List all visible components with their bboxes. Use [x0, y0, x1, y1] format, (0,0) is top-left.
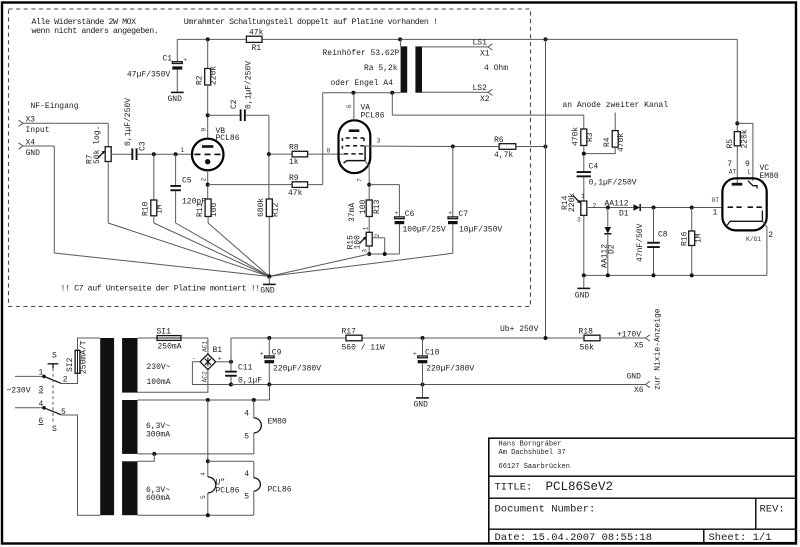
- resistor R2 220k: [196, 39, 219, 138]
- node C3/R10 junction: [152, 152, 156, 156]
- node C8 tap: [652, 206, 656, 210]
- ground at star: [260, 276, 275, 295]
- node R16 tap: [690, 206, 694, 210]
- capacitor C10 220uF/380V: [413, 338, 474, 385]
- magic eye VC EM80: [712, 160, 779, 275]
- transformer TR2 secondary bars: [122, 338, 137, 515]
- svg-text:Alle Widerstände 2W MOX: Alle Widerstände 2W MOX: [32, 17, 137, 27]
- svg-text:Date: 15.04.2007 08:55:18: Date: 15.04.2007 08:55:18: [495, 532, 653, 544]
- svg-text:47µF/350V: 47µF/350V: [127, 71, 170, 80]
- svg-text:R10: R10: [142, 201, 151, 216]
- resistor R17 560/11W: [342, 327, 385, 352]
- svg-text:PCL86: PCL86: [361, 112, 385, 121]
- svg-text:+: +: [448, 210, 452, 217]
- node junction dots on B+ rail: [206, 37, 548, 41]
- wire VB cathode: [206, 170, 292, 199]
- svg-text:wenn nicht anders angegeben.: wenn nicht anders angegeben.: [32, 26, 159, 36]
- triode VB PCL86: [181, 127, 240, 182]
- svg-text:LS1: LS1: [473, 39, 488, 48]
- connector X3 Input: [19, 102, 109, 135]
- capacitor C9 220uF/380V: [260, 338, 321, 385]
- svg-text:C8: C8: [658, 231, 668, 240]
- svg-text:5: 5: [244, 493, 249, 502]
- svg-text:56k: 56k: [580, 344, 595, 353]
- node R8/R12 junction: [267, 152, 271, 156]
- svg-text:+: +: [260, 351, 264, 358]
- connector LS1 X1: [422, 39, 493, 59]
- svg-text:1: 1: [363, 227, 370, 231]
- svg-text:1: 1: [713, 209, 718, 218]
- svg-text:B1: B1: [213, 346, 223, 355]
- svg-text:GND: GND: [414, 401, 429, 410]
- svg-text:NF-Eingang: NF-Eingang: [31, 102, 79, 111]
- svg-text:470k: 470k: [617, 133, 626, 152]
- ground under C1: [168, 92, 184, 104]
- resistor R1 47k: [246, 28, 263, 53]
- svg-text:1k: 1k: [289, 158, 299, 167]
- resistor R11 100: [196, 199, 219, 223]
- svg-text:C5: C5: [182, 177, 192, 186]
- svg-text:AT: AT: [729, 169, 737, 176]
- svg-text:X6: X6: [634, 386, 644, 395]
- connector mains pin4: [15, 400, 44, 409]
- svg-text:+: +: [395, 210, 399, 217]
- svg-text:4: 4: [244, 470, 249, 479]
- ground under C10: [414, 385, 429, 410]
- capacitor C7 10uF/350V: [448, 147, 502, 254]
- svg-text:an Anode zweiter Kanal: an Anode zweiter Kanal: [563, 101, 669, 110]
- svg-text:2: 2: [593, 203, 597, 210]
- svg-text:100: 100: [359, 199, 368, 214]
- svg-text:!! C7 auf Unterseite der Plati: !! C7 auf Unterseite der Platine montier…: [61, 284, 260, 294]
- svg-text:X4: X4: [26, 138, 36, 147]
- svg-text:220k: 220k: [210, 66, 219, 85]
- wire cathode bottom net: [367, 252, 399, 256]
- connector LS2 X2: [422, 84, 493, 104]
- svg-text:66127 Saarbrücken: 66127 Saarbrücken: [499, 463, 570, 471]
- svg-text:PCL86: PCL86: [216, 134, 240, 143]
- svg-text:Hans Borngräber: Hans Borngräber: [499, 441, 562, 449]
- resistor R3 470k: [572, 115, 595, 172]
- capacitor C4 0,1uF/250V: [577, 163, 637, 202]
- potentiometer R15 100: [346, 227, 384, 255]
- svg-text:R6: R6: [494, 136, 504, 145]
- resistor R5 220k: [726, 129, 749, 184]
- heater EM80: [244, 400, 287, 454]
- svg-text:Sheet: 1/1: Sheet: 1/1: [709, 532, 772, 544]
- svg-text:+: +: [413, 351, 417, 358]
- svg-text:C2: C2: [230, 99, 239, 109]
- node R3/R4/C4 junction: [582, 152, 586, 156]
- svg-text:X3: X3: [26, 116, 36, 125]
- svg-text:GND: GND: [575, 292, 590, 301]
- connector X5 +170V: [617, 331, 650, 351]
- svg-text:5: 5: [200, 495, 207, 499]
- svg-text:220µF/380V: 220µF/380V: [426, 365, 474, 374]
- svg-text:SI1: SI1: [157, 327, 172, 336]
- svg-text:R13: R13: [373, 199, 382, 214]
- diode D1 AA112: [605, 200, 723, 219]
- svg-text:Input: Input: [26, 126, 50, 135]
- node VB anode / C2 junction: [206, 113, 210, 117]
- svg-text:6: 6: [346, 104, 353, 108]
- pentode VA PCL86: [339, 93, 385, 182]
- resistor R18 56k: [579, 327, 646, 352]
- svg-text:1: 1: [581, 193, 585, 200]
- svg-text:230V~: 230V~: [147, 363, 171, 372]
- wire 0V rail 384.5: [231, 383, 646, 387]
- connector mains pin1: [15, 369, 44, 378]
- svg-text:50k log.: 50k log.: [93, 126, 102, 164]
- connector X4 GND: [19, 138, 55, 253]
- svg-text:3: 3: [361, 249, 368, 253]
- wire bridge minus loop: [192, 362, 231, 385]
- svg-text:S: S: [52, 352, 57, 361]
- svg-text:oder Engel A4: oder Engel A4: [331, 79, 394, 88]
- svg-text:Umrahmter Schaltungsteil doppe: Umrahmter Schaltungsteil doppelt auf Pla…: [184, 17, 438, 27]
- wire EM80 ground rail: [582, 273, 767, 277]
- bridge rectifier B1: [192, 340, 223, 382]
- svg-text:680k: 680k: [257, 198, 266, 217]
- svg-text:zur Nixie-Anzeige: zur Nixie-Anzeige: [654, 308, 663, 390]
- GND star node: [54, 223, 453, 279]
- svg-text:D1: D1: [619, 210, 629, 219]
- svg-text:4: 4: [244, 410, 249, 419]
- potentiometer R14 220k: [561, 193, 634, 276]
- svg-text:R16: R16: [681, 231, 690, 246]
- capacitor C8 47nF/50V: [636, 208, 668, 276]
- wire winding1 top to SI1: [138, 337, 158, 339]
- svg-text:3: 3: [377, 138, 381, 145]
- connector X6 GND: [627, 373, 650, 396]
- switch S pole1: [39, 352, 68, 425]
- svg-text:4 Ohm: 4 Ohm: [484, 64, 508, 73]
- fuse SI2 250mA/T: [66, 338, 100, 374]
- svg-text:7: 7: [727, 160, 732, 169]
- wire C2 to R8/R12 node: [268, 115, 270, 199]
- svg-text:R18: R18: [579, 327, 594, 336]
- svg-text:EM80: EM80: [760, 172, 779, 181]
- svg-text:100µF/25V: 100µF/25V: [403, 226, 446, 235]
- svg-text:+170V: +170V: [617, 331, 641, 340]
- svg-text:0,1µF: 0,1µF: [238, 376, 262, 385]
- svg-text:AC2: AC2: [201, 371, 208, 383]
- svg-text:470k: 470k: [572, 127, 581, 146]
- wire heater rail 400: [138, 385, 270, 403]
- wire winding1 bottom AC2: [138, 370, 208, 393]
- svg-text:47k: 47k: [288, 189, 303, 198]
- capacitor C1 47uF/350V: [127, 39, 187, 92]
- svg-text:GND: GND: [168, 95, 183, 104]
- svg-text:L: L: [747, 169, 751, 176]
- svg-text:5: 5: [244, 433, 249, 442]
- svg-text:2: 2: [200, 178, 207, 182]
- transformer TR1 primary bar: [401, 39, 408, 92]
- svg-text:C7: C7: [458, 210, 468, 219]
- svg-text:~230V: ~230V: [7, 387, 31, 396]
- svg-text:0T: 0T: [712, 197, 720, 204]
- capacitor C5 120pF: [170, 154, 206, 223]
- resistor R10 1M: [142, 154, 165, 223]
- diode D2 AA112: [600, 208, 616, 276]
- heater U" PCL86: [200, 472, 240, 515]
- svg-text:Ub+ 250V: Ub+ 250V: [500, 325, 539, 334]
- svg-text:10µF/350V: 10µF/350V: [459, 226, 502, 235]
- svg-text:C11: C11: [238, 364, 253, 373]
- svg-text:R2: R2: [196, 75, 205, 85]
- svg-text:1M: 1M: [156, 204, 165, 214]
- svg-text:3: 3: [39, 386, 44, 395]
- svg-text:EM80: EM80: [268, 418, 287, 427]
- svg-text:C6: C6: [405, 210, 415, 219]
- svg-text:PCL86: PCL86: [216, 487, 240, 496]
- capacitor C6 100uF/25V: [395, 185, 446, 254]
- svg-text:D2: D2: [608, 244, 617, 254]
- svg-text:3: 3: [577, 217, 581, 224]
- capacitor C11 0,1uF: [225, 362, 262, 387]
- transformer TR2 primary bar: [100, 338, 114, 515]
- capacitor C3 0,1uF/250V: [111, 98, 194, 160]
- svg-text:100: 100: [210, 202, 219, 217]
- svg-text:220k: 220k: [740, 129, 749, 148]
- svg-text:47k: 47k: [249, 28, 264, 37]
- svg-text:2: 2: [768, 231, 773, 240]
- svg-text:2: 2: [374, 234, 381, 238]
- wire heater PCL86 drop x207.8: [206, 400, 254, 477]
- winding labels 230V 100mA: [147, 363, 171, 387]
- svg-text:TITLE:: TITLE:: [495, 482, 533, 494]
- fuse SI1 250mA: [157, 327, 208, 351]
- svg-text:+: +: [183, 56, 187, 63]
- wire AC1 into bridge: [207, 338, 209, 354]
- svg-text:300mA: 300mA: [146, 431, 170, 440]
- wire B+ rail 338: [231, 336, 584, 340]
- title block divider lines: [489, 475, 796, 477]
- svg-text:C9: C9: [272, 349, 282, 358]
- svg-text:R1: R1: [252, 44, 262, 53]
- ground at EM80 rail: [575, 275, 590, 300]
- svg-text:PCL86: PCL86: [268, 486, 292, 495]
- title block outer box: [489, 438, 796, 543]
- svg-text:R12: R12: [271, 202, 280, 217]
- svg-text:4,7k: 4,7k: [494, 151, 513, 160]
- wire winding3 bottom: [138, 513, 254, 517]
- capacitor C2 0,1uF/250V: [208, 61, 269, 121]
- svg-text:250mA/T: 250mA/T: [80, 340, 89, 374]
- svg-text:37mA: 37mA: [348, 203, 357, 222]
- potentiometer R7 50k log: [86, 123, 112, 223]
- svg-text:X2: X2: [480, 95, 490, 104]
- svg-text:C3: C3: [139, 141, 148, 151]
- svg-text:9: 9: [745, 160, 750, 169]
- svg-text:AC1: AC1: [201, 340, 208, 352]
- wire VA anode net to OT primary: [323, 91, 584, 115]
- svg-text:47nF/50V: 47nF/50V: [636, 223, 645, 262]
- svg-text:220k: 220k: [568, 193, 577, 212]
- svg-text:Am Dachshübel 37: Am Dachshübel 37: [499, 449, 566, 457]
- svg-text:1: 1: [181, 147, 185, 154]
- wire Ub+ vertical rail x545: [544, 39, 548, 338]
- svg-text:220µF/380V: 220µF/380V: [273, 365, 321, 374]
- svg-text:Reinhöfer 53.62P: Reinhöfer 53.62P: [323, 49, 400, 58]
- svg-text:R11: R11: [196, 202, 205, 217]
- resistor R6 4,7k: [451, 136, 546, 160]
- svg-text:R5: R5: [726, 139, 735, 149]
- svg-text:X1: X1: [480, 50, 490, 59]
- node D2 tap: [606, 206, 610, 210]
- PCB dashed outline frame: [9, 9, 531, 307]
- wire switch pole2 to primary bottom: [61, 415, 100, 515]
- svg-text:9: 9: [200, 128, 207, 132]
- transformer TR1 secondary bar: [415, 46, 422, 92]
- svg-text:R4: R4: [603, 137, 612, 147]
- wire VA screen pin3 to R6: [363, 145, 453, 148]
- svg-text:Document Number:: Document Number:: [495, 504, 596, 516]
- svg-text:0,1µF/250V: 0,1µF/250V: [589, 179, 637, 188]
- svg-text:6: 6: [39, 417, 44, 426]
- heater PCL86 second: [244, 461, 291, 515]
- svg-text:REV:: REV:: [760, 504, 785, 516]
- svg-text:100mA: 100mA: [147, 378, 171, 387]
- winding labels 6,3V 300mA: [146, 422, 170, 440]
- svg-text:7: 7: [357, 178, 364, 182]
- svg-text:0,1µF/250V: 0,1µF/250V: [245, 61, 254, 109]
- svg-text:R3: R3: [586, 132, 595, 142]
- resistor R13 100: [348, 199, 382, 232]
- node C5 junction: [174, 152, 178, 156]
- wire switch pole1 to fuse SI2: [61, 373, 78, 383]
- svg-text:GND: GND: [260, 287, 275, 296]
- wire bridge plus to B+: [216, 338, 233, 364]
- resistor R4 470k: [584, 113, 626, 154]
- svg-text:0,1µF/250V: 0,1µF/250V: [124, 98, 133, 146]
- svg-text:PCL86SeV2: PCL86SeV2: [546, 480, 614, 494]
- svg-text:C10: C10: [425, 349, 440, 358]
- svg-text:1M: 1M: [695, 233, 704, 243]
- wire B+ top rail: [177, 38, 737, 40]
- resistor R8 1k: [269, 144, 344, 168]
- resistor R9 47k feedback: [288, 93, 323, 198]
- svg-text:C1: C1: [163, 54, 173, 63]
- wire B+ to R5: [735, 39, 753, 181]
- svg-text:600mA: 600mA: [146, 494, 170, 503]
- svg-text:K/G1: K/G1: [746, 236, 761, 243]
- resistor R16 1M: [681, 208, 704, 276]
- svg-text:8: 8: [327, 147, 331, 154]
- svg-text:R9: R9: [289, 174, 299, 183]
- wire VA cathode pin7: [365, 161, 399, 200]
- switch S pole2: [39, 406, 67, 434]
- svg-text:560 / 11W: 560 / 11W: [342, 344, 385, 353]
- svg-text:R17: R17: [342, 327, 357, 336]
- svg-text:LS2: LS2: [473, 84, 488, 93]
- svg-text:SI2: SI2: [66, 357, 75, 372]
- wire winding2 bottom: [138, 452, 254, 461]
- svg-text:100: 100: [354, 235, 363, 250]
- svg-text:R8: R8: [289, 144, 299, 153]
- svg-text:C4: C4: [589, 163, 599, 172]
- resistor R12 680k: [257, 198, 280, 277]
- svg-text:GND: GND: [627, 373, 642, 382]
- transformer labels Reinhoefer: [323, 49, 400, 88]
- svg-text:4: 4: [200, 472, 207, 476]
- svg-text:S: S: [52, 425, 57, 434]
- winding labels 6,3V 600mA: [146, 486, 170, 503]
- svg-text:Ra 5,2k: Ra 5,2k: [364, 64, 398, 73]
- svg-text:X5: X5: [634, 342, 644, 351]
- svg-text:GND: GND: [26, 149, 41, 158]
- svg-text:250mA: 250mA: [158, 343, 182, 352]
